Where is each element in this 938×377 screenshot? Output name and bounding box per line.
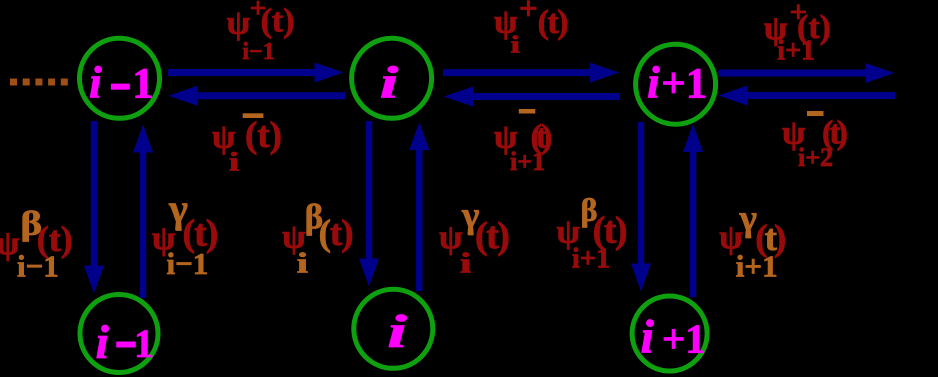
label psi+ i-1 (t) (227, 0, 295, 65)
arrow down (top i+1 to bottom i+1) (631, 122, 651, 292)
svg-text:i: i (229, 147, 239, 176)
label psi- i (t) (212, 113, 282, 176)
svg-text:i: i (387, 306, 407, 358)
label psi+ i (t) (494, 0, 567, 58)
arrow down (top i-1 to bottom i-1) (84, 121, 104, 294)
svg-text:ψ: ψ (227, 5, 251, 42)
svg-text:i+1: i+1 (641, 311, 706, 364)
svg-text:i+1: i+1 (777, 35, 815, 66)
label psi- i+2 (t) (782, 111, 847, 172)
svg-text:i+1: i+1 (510, 147, 545, 176)
svg-text:i: i (380, 57, 399, 108)
arrow right top (i to i+1) (443, 63, 619, 83)
svg-text:1: 1 (132, 60, 154, 107)
arrow up (bottom i to top i) (409, 122, 429, 291)
arrow down (top i to bottom i) (359, 121, 379, 287)
svg-text:(t): (t) (319, 213, 353, 254)
svg-text:i+1: i+1 (736, 249, 778, 284)
svg-text:γ: γ (739, 198, 757, 239)
svg-text:i: i (96, 316, 110, 369)
svg-text:i+2: i+2 (798, 143, 833, 172)
arrow up (bottom i+1 to top i+1) (683, 124, 703, 297)
svg-text:+: + (519, 0, 538, 27)
arrow up (bottom i-1 to top i-1) (133, 125, 153, 299)
label psi beta i+1 (t) (557, 192, 627, 275)
svg-text:i: i (297, 247, 309, 279)
svg-text:i−1: i−1 (167, 246, 209, 281)
svg-text:1: 1 (134, 321, 154, 366)
node circle top i+1 (636, 44, 716, 124)
svg-text:i+1: i+1 (572, 243, 610, 274)
arrow left top (i to i-1) (169, 86, 346, 106)
svg-text:(t): (t) (475, 215, 508, 257)
svg-text:i−1: i−1 (17, 249, 59, 284)
svg-text:(t): (t) (538, 4, 568, 41)
label psi gamma i-1 (t) (152, 186, 217, 281)
label psi beta i (t) (282, 197, 352, 279)
svg-text:(t): (t) (261, 3, 295, 40)
svg-text:i−1: i−1 (242, 39, 274, 65)
label psi- i+1 (t) (494, 109, 551, 176)
dotted continuation line left (10, 79, 70, 86)
svg-text:i+1: i+1 (647, 57, 707, 108)
node circle bottom i (354, 289, 433, 368)
label psi gamma i (t) (439, 195, 508, 279)
svg-text:i: i (511, 32, 520, 58)
svg-text:(t): (t) (245, 115, 282, 156)
node circle top i-1 (80, 38, 160, 118)
svg-text:i: i (89, 57, 102, 108)
arrow left top (i+1 to i) (444, 87, 620, 107)
arrow right top (i+1 to right) (719, 63, 895, 83)
node circle top i (352, 38, 432, 118)
arrow right top (i-1 to i) (168, 63, 344, 83)
svg-text:i: i (460, 247, 472, 279)
arrow left top (right to i+1) (719, 86, 896, 106)
node circle bottom i+1 (632, 296, 707, 371)
label psi gamma i+1 (t) (719, 198, 785, 284)
label psi beta i-1 (t) (0, 205, 73, 283)
node circle bottom i-1 (80, 295, 158, 373)
label psi+ i+1 (t) (764, 0, 831, 66)
